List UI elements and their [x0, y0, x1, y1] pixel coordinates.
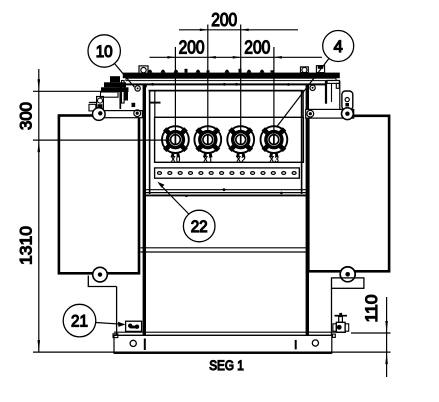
svg-text:4: 4 [334, 38, 343, 56]
svg-text:21: 21 [71, 313, 88, 331]
svg-text:1310: 1310 [17, 226, 36, 265]
svg-text:110: 110 [362, 295, 381, 323]
svg-text:300: 300 [17, 102, 36, 130]
svg-text:X1: X1 [203, 155, 213, 165]
svg-text:X2: X2 [236, 155, 246, 165]
svg-text:200: 200 [211, 10, 237, 30]
svg-text:10: 10 [96, 43, 113, 61]
svg-text:200: 200 [244, 37, 270, 57]
svg-text:X0: X0 [170, 155, 180, 165]
svg-text:200: 200 [179, 37, 205, 57]
svg-text:SEG 1: SEG 1 [209, 358, 244, 373]
svg-text:X3: X3 [269, 155, 279, 165]
svg-text:22: 22 [191, 218, 208, 236]
